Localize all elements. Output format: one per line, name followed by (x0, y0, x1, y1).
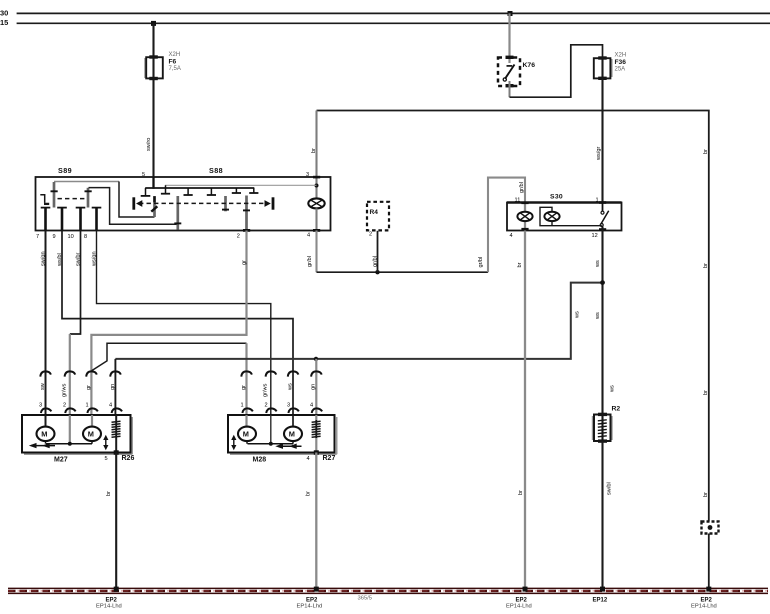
svg-text:gr/ws: gr/ws (263, 383, 269, 397)
svg-text:2: 2 (265, 403, 268, 409)
svg-text:2: 2 (369, 232, 372, 238)
svg-text:EP14-Lhd: EP14-Lhd (506, 604, 532, 610)
svg-text:10: 10 (68, 234, 74, 240)
svg-text:EP14-Lhd: EP14-Lhd (297, 604, 323, 610)
svg-text:br: br (703, 492, 709, 497)
svg-text:R4: R4 (370, 209, 379, 216)
svg-text:M: M (88, 430, 94, 439)
svg-text:1: 1 (241, 403, 244, 409)
svg-text:4: 4 (307, 233, 310, 239)
svg-text:M28: M28 (253, 457, 267, 464)
svg-text:M: M (289, 430, 295, 439)
svg-text:br: br (311, 148, 317, 153)
svg-text:X2H: X2H (615, 53, 627, 59)
svg-text:11: 11 (515, 197, 521, 203)
svg-text:gr: gr (242, 260, 248, 265)
svg-text:gn: gn (110, 384, 116, 390)
svg-text:9: 9 (53, 234, 56, 240)
svg-text:EP14-Lhd: EP14-Lhd (96, 604, 122, 610)
svg-text:br: br (106, 491, 112, 496)
svg-text:ws/gn: ws/gn (92, 251, 98, 267)
svg-text:12: 12 (592, 233, 598, 239)
svg-text:gr/bl: gr/bl (478, 257, 484, 268)
svg-text:gr/bl: gr/bl (373, 256, 379, 267)
svg-text:ws/bl: ws/bl (57, 253, 63, 267)
svg-text:ws: ws (610, 385, 616, 393)
svg-text:R26: R26 (122, 455, 135, 462)
svg-text:br: br (306, 491, 312, 496)
svg-text:4: 4 (510, 233, 513, 239)
svg-text:15: 15 (0, 18, 8, 27)
svg-text:EP12: EP12 (593, 598, 608, 604)
svg-text:ws: ws (595, 260, 601, 268)
svg-text:M: M (243, 430, 249, 439)
svg-text:br: br (703, 149, 709, 154)
svg-text:X2H: X2H (169, 52, 181, 58)
svg-text:R27: R27 (323, 455, 336, 462)
svg-text:F36: F36 (615, 59, 627, 66)
svg-text:30: 30 (0, 8, 8, 17)
svg-text:gr/ws: gr/ws (62, 383, 68, 397)
svg-text:M27: M27 (54, 457, 68, 464)
svg-text:gr/bl: gr/bl (519, 182, 525, 193)
svg-text:S30: S30 (550, 194, 563, 201)
svg-text:gn: gn (311, 384, 317, 390)
svg-text:7,5A: 7,5A (169, 66, 181, 72)
svg-text:3: 3 (287, 403, 290, 409)
svg-text:25A: 25A (615, 66, 626, 72)
svg-text:gr/bl: gr/bl (307, 256, 313, 267)
svg-text:sw: sw (40, 382, 46, 390)
svg-text:3: 3 (39, 403, 42, 409)
svg-text:gr: gr (241, 385, 247, 390)
svg-text:1: 1 (86, 403, 89, 409)
svg-text:ws: ws (575, 311, 581, 319)
svg-text:br: br (518, 490, 524, 495)
svg-text:ws: ws (595, 312, 601, 320)
svg-text:ws: ws (288, 383, 294, 391)
svg-text:S88: S88 (209, 166, 223, 175)
svg-text:5: 5 (105, 456, 108, 462)
svg-text:2: 2 (237, 234, 240, 240)
svg-text:sw/gn: sw/gn (41, 251, 47, 266)
svg-text:F6: F6 (169, 59, 177, 66)
svg-text:sw/ro: sw/ro (146, 138, 152, 151)
svg-text:br: br (703, 263, 709, 268)
svg-text:sw/br: sw/br (76, 252, 82, 266)
svg-text:2: 2 (63, 403, 66, 409)
svg-text:K76: K76 (523, 62, 536, 69)
svg-text:R2: R2 (612, 406, 621, 413)
svg-text:br: br (517, 262, 523, 267)
svg-text:ws/gr: ws/gr (596, 146, 602, 161)
svg-text:sw/bl: sw/bl (607, 482, 613, 495)
svg-text:4: 4 (307, 456, 310, 462)
svg-text:M: M (41, 430, 47, 439)
svg-text:br: br (703, 390, 709, 395)
svg-text:gr: gr (86, 385, 92, 390)
svg-text:4: 4 (310, 403, 313, 409)
svg-text:1: 1 (596, 197, 599, 203)
svg-text:3: 3 (306, 172, 309, 178)
svg-text:8: 8 (84, 234, 87, 240)
svg-text:S89: S89 (58, 166, 72, 175)
svg-text:EP14-Lhd: EP14-Lhd (691, 604, 717, 610)
svg-text:365/5: 365/5 (358, 596, 373, 602)
svg-text:7: 7 (36, 234, 39, 240)
svg-text:4: 4 (109, 403, 112, 409)
